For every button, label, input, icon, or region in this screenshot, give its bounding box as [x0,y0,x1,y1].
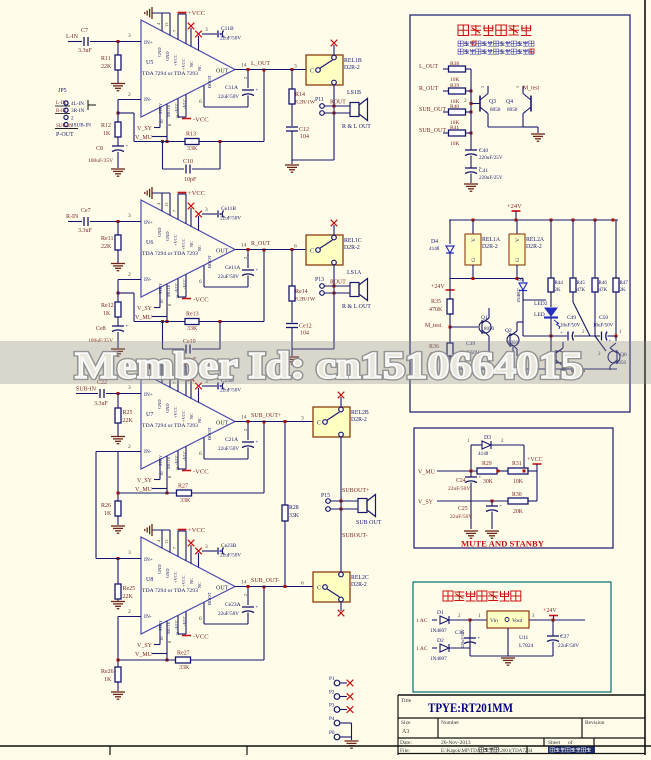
svg-text:LED2: LED2 [534,301,548,307]
svg-text:-VCC: -VCC [193,297,209,304]
svg-text:GND: GND [165,403,170,413]
svg-text:22uF/50V: 22uF/50V [220,216,241,222]
svg-text:IN-: IN- [144,449,152,455]
svg-text:14: 14 [241,580,247,586]
svg-text:MUTE AND STANBY: MUTE AND STANBY [461,539,544,549]
svg-text:1N4007: 1N4007 [430,628,447,634]
svg-text:20K: 20K [513,509,524,515]
svg-text:+VCC: +VCC [181,238,186,250]
svg-text:R28: R28 [289,505,299,511]
svg-text:1 AC: 1 AC [416,618,428,624]
svg-text:ROUT: ROUT [330,280,346,286]
svg-text:R-IN: R-IN [66,214,79,220]
svg-text:R30: R30 [512,492,522,498]
svg-text:+: + [256,441,259,446]
svg-text:10pF: 10pF [184,177,197,183]
svg-text:V: V [515,238,521,242]
svg-text:2: 2 [128,92,131,98]
svg-text:IN-: IN- [144,97,152,103]
svg-text:TDA 7294 or TDA 7293: TDA 7294 or TDA 7293 [142,423,198,429]
svg-text:of: of [568,739,573,746]
svg-text:R26: R26 [101,503,111,509]
svg-text:+VCC: +VCC [188,10,205,17]
svg-text:NC: NC [197,417,202,423]
svg-text:R45: R45 [577,281,586,286]
svg-text:2: 2 [243,594,248,596]
svg-text:ROUT: ROUT [330,100,346,106]
svg-text:220uF/25V: 220uF/25V [479,155,503,161]
svg-text:V_MU: V_MU [135,315,153,321]
svg-text:+: + [256,269,259,274]
svg-text:SUB_OUT: SUB_OUT [419,128,446,134]
svg-text:6: 6 [301,581,304,587]
svg-text:3.3uF: 3.3uF [94,401,109,407]
svg-text:13: 13 [164,22,169,27]
svg-text:LED: LED [534,312,545,318]
svg-text:L-IN: L-IN [56,101,66,106]
svg-text:R41: R41 [450,125,459,131]
svg-text:+: + [500,505,503,510]
svg-text:C7: C7 [81,28,88,34]
svg-text:10K: 10K [513,479,524,485]
svg-text:D3: D3 [484,435,491,441]
svg-text:TDA 7294 or TDA 7293: TDA 7294 or TDA 7293 [142,588,198,594]
svg-text:NC: NC [197,65,202,71]
svg-text:+: + [126,145,129,150]
svg-text:R46: R46 [599,281,608,286]
svg-text:33K: 33K [289,513,300,519]
svg-text:V_SY: V_SY [418,500,434,506]
svg-text:Vout: Vout [512,618,523,624]
svg-text:GND: GND [157,47,162,57]
svg-text:BOOT: BOOT [207,255,212,268]
svg-text:Member Id: cn1510664015: Member Id: cn1510664015 [75,345,583,387]
svg-text:R & L OUT: R & L OUT [342,124,371,130]
svg-text:1K: 1K [104,677,112,683]
svg-text:2K: 2K [620,288,627,293]
svg-text:C25: C25 [458,506,468,512]
svg-text:22uF/50V: 22uF/50V [220,36,241,42]
svg-text:R12: R12 [101,123,111,129]
svg-text:33K: 33K [179,665,190,671]
svg-text:6: 6 [294,244,297,250]
svg-text:IN+: IN+ [144,392,153,398]
svg-text:1K: 1K [103,311,111,317]
svg-text:33K: 33K [187,146,198,152]
svg-text:2: 2 [243,429,248,431]
svg-text:REL2A: REL2A [526,237,545,243]
svg-text:V_MU: V_MU [135,135,153,141]
svg-text:+: + [256,606,259,611]
svg-text:Ce23A: Ce23A [225,602,241,608]
svg-text:Q1: Q1 [481,315,488,321]
svg-text:D2R-2: D2R-2 [482,244,498,250]
svg-text:2: 2 [128,272,131,278]
svg-text:\2001(TDA7294: \2001(TDA7294 [499,749,533,754]
svg-text:13: 13 [164,539,169,544]
svg-text:2: 2 [128,444,131,450]
svg-text:+: + [479,476,482,481]
svg-text:U11: U11 [519,635,529,641]
svg-text:+VCC: +VCC [173,571,178,583]
svg-text:3: 3 [294,64,297,70]
svg-text:8050: 8050 [507,107,518,113]
svg-text:R35: R35 [431,299,441,305]
svg-text:D2R-2: D2R-2 [344,245,360,251]
svg-text:+24V: +24V [431,284,445,290]
svg-text:IN-: IN- [144,614,152,620]
svg-text:+VCC: +VCC [173,234,178,246]
svg-text:C37: C37 [560,634,569,640]
svg-text:C: C [310,69,314,75]
svg-text:V_MU: V_MU [135,487,153,493]
svg-text:+24V: +24V [543,608,557,614]
svg-text:P0: P0 [329,730,335,736]
svg-text:NC: NC [189,241,194,247]
svg-text:Ce12: Ce12 [299,324,312,330]
svg-text:22uF/50V: 22uF/50V [218,94,239,100]
svg-text:V_MU: V_MU [135,652,153,658]
svg-text:L-IN: L-IN [66,34,79,40]
svg-text:OUT: OUT [216,249,229,255]
svg-text:SUB_OUT-: SUB_OUT- [251,578,279,584]
svg-text:Re25: Re25 [123,586,136,592]
svg-text:SUB_OUT: SUB_OUT [419,107,446,113]
svg-text:U8: U8 [146,577,153,583]
svg-text:L7824: L7824 [519,643,534,649]
svg-text:P2: P2 [329,690,335,696]
svg-text:4148: 4148 [478,451,489,457]
svg-text:GND: GND [157,399,162,409]
svg-text:R39: R39 [450,83,459,89]
svg-text:U5: U5 [146,60,153,66]
svg-text:+: + [256,89,259,94]
svg-text:+VCC: +VCC [173,406,178,418]
svg-text:P4: P4 [329,716,335,722]
svg-text:D2R-2: D2R-2 [344,65,360,71]
svg-text:C40: C40 [479,148,488,154]
svg-text:BOOT: BOOT [207,427,212,440]
svg-text:8050: 8050 [490,107,501,113]
svg-text:REL2C: REL2C [351,575,369,581]
svg-text:REL1B: REL1B [344,58,362,64]
svg-text:P15: P15 [321,493,330,499]
svg-text:TPYE:RT201MM: TPYE:RT201MM [428,701,513,715]
svg-text:IN+: IN+ [144,557,153,563]
svg-text:22uF/50V: 22uF/50V [558,643,579,649]
svg-text:Q4: Q4 [506,99,513,105]
svg-text:100uF/35V: 100uF/35V [88,158,113,164]
svg-text:V: V [471,238,477,242]
svg-text:L_OUT: L_OUT [419,64,438,70]
svg-text:47K: 47K [599,288,608,293]
svg-text:470K: 470K [429,307,443,313]
svg-text:1N4007: 1N4007 [516,287,521,303]
svg-text:220uF/25V: 220uF/25V [479,175,503,181]
svg-text:C11A: C11A [225,85,238,91]
svg-text:M_test: M_test [425,323,441,329]
svg-text:Vin: Vin [490,618,498,624]
svg-text:33K: 33K [187,326,198,332]
svg-text:+VCC: +VCC [173,54,178,66]
svg-text:TDA 7294 or TDA 7293: TDA 7294 or TDA 7293 [142,251,198,257]
svg-text:Date:: Date: [400,740,412,746]
svg-text:22uF/50V: 22uF/50V [220,553,241,559]
svg-text:LS1A: LS1A [347,270,362,276]
svg-text:5: 5 [480,86,485,88]
svg-text:1 AC: 1 AC [416,646,428,652]
svg-text:+: + [560,331,563,336]
svg-text:P-OUT: P-OUT [56,132,74,138]
svg-text:E:\Kapok\MP\TDA: E:\Kapok\MP\TDA [441,749,481,754]
svg-text:C24: C24 [456,478,466,484]
svg-text:R44: R44 [555,281,564,286]
svg-text:2: 2 [243,257,248,259]
svg-text:33K: 33K [180,498,191,504]
svg-text:104: 104 [300,331,309,337]
svg-text:GND: GND [157,227,162,237]
svg-text:C12: C12 [299,127,309,133]
svg-text:3: 3 [301,416,304,422]
svg-text:GND: GND [165,51,170,61]
svg-text:8.2R/1W: 8.2R/1W [295,100,316,106]
svg-text:14: 14 [241,243,247,249]
svg-text:Ce23B: Ce23B [221,543,237,549]
svg-text:IN+: IN+ [144,220,153,226]
svg-text:BOOT: BOOT [207,592,212,605]
svg-text:8.2R/1W: 8.2R/1W [295,297,316,303]
svg-text:R25: R25 [123,410,133,416]
svg-text:C41: C41 [479,168,488,174]
svg-text:TDA 7294 or TDA 7293: TDA 7294 or TDA 7293 [142,71,198,77]
svg-text:LS1B: LS1B [347,90,361,96]
svg-text:+VCC: +VCC [188,527,205,534]
svg-text:1K: 1K [103,131,111,137]
svg-text:22K: 22K [123,594,134,600]
svg-text:OUT: OUT [216,421,229,427]
svg-text:20-Nov-2013: 20-Nov-2013 [441,740,471,746]
svg-text:3: 3 [128,550,131,556]
svg-text:+24V: +24V [507,203,522,210]
svg-text:P3: P3 [329,703,335,709]
svg-text:22uF/50V: 22uF/50V [220,388,241,394]
svg-text:R13: R13 [186,132,196,138]
svg-text:R_OUT: R_OUT [419,86,439,92]
svg-text:6: 6 [199,616,202,622]
svg-text:NC: NC [189,578,194,584]
svg-text:-VCC: -VCC [193,117,209,124]
svg-text:C10: C10 [183,159,193,165]
svg-text:R38: R38 [450,61,459,67]
svg-text:2: 2 [128,609,131,615]
svg-text:V_MU: V_MU [418,470,436,476]
svg-text:220uF/50V: 220uF/50V [460,629,465,648]
svg-text:5: 5 [515,86,520,88]
svg-text:Re26: Re26 [101,669,114,675]
svg-text:R14: R14 [295,92,305,98]
svg-text:3: 3 [205,27,208,33]
svg-text:NC: NC [197,245,202,251]
svg-text:4L-IN: 4L-IN [71,101,84,107]
svg-text:OUT: OUT [216,586,229,592]
svg-text:REL1C: REL1C [344,238,362,244]
svg-text:C21A: C21A [225,437,238,443]
svg-text:Ce11B: Ce11B [221,206,236,212]
svg-text:+VCC: +VCC [181,410,186,422]
svg-text:D2R-2: D2R-2 [351,417,367,423]
svg-text:3: 3 [205,207,208,213]
svg-text:22uF/50V: 22uF/50V [218,611,239,617]
svg-text:REL2B: REL2B [351,410,369,416]
svg-text:1K: 1K [104,511,112,517]
svg-text:L_OUT: L_OUT [251,61,270,67]
svg-text:22K: 22K [101,244,112,250]
svg-text:M_test: M_test [523,86,539,92]
svg-text:U6: U6 [146,240,153,246]
svg-text:REL1A: REL1A [482,237,501,243]
svg-text:3.3uF: 3.3uF [78,228,93,234]
svg-text:22uF/50V: 22uF/50V [448,486,470,492]
svg-text:P11: P11 [315,97,324,103]
svg-text:104: 104 [300,134,309,140]
svg-text:Re13: Re13 [186,312,199,318]
svg-text:P1: P1 [329,676,335,682]
svg-text:R47: R47 [620,281,629,286]
svg-text:R29: R29 [482,461,492,467]
svg-text:-VCC: -VCC [193,634,209,641]
svg-text:P13: P13 [315,277,324,283]
svg-text:2: 2 [71,115,74,121]
svg-text:6: 6 [199,99,202,105]
svg-text:V_SY: V_SY [137,306,153,312]
svg-text:2: 2 [464,98,467,104]
svg-text:Number: Number [441,720,459,726]
svg-text:22K: 22K [123,418,134,424]
svg-text:10uF/50V: 10uF/50V [560,324,581,329]
svg-text:+VCC: +VCC [527,457,543,463]
svg-text:6: 6 [199,451,202,457]
svg-text:C49: C49 [567,315,576,321]
svg-text:G: G [515,258,521,262]
svg-text:3: 3 [128,213,131,219]
svg-text:1SUB-IN: 1SUB-IN [71,123,91,129]
svg-text:File:: File: [400,748,411,754]
svg-text:3: 3 [205,544,208,550]
svg-text:Q3: Q3 [489,99,496,105]
svg-text:G: G [471,258,477,262]
svg-text:D2R-2: D2R-2 [526,244,542,250]
svg-text:+VCC: +VCC [188,190,205,197]
svg-text:13: 13 [164,202,169,207]
svg-text:30K: 30K [483,479,494,485]
svg-text:Size: Size [401,720,411,726]
svg-text:3: 3 [128,33,131,39]
svg-text:R_OUT: R_OUT [251,241,271,247]
svg-text:OUT: OUT [216,69,229,75]
svg-text:SUB_OUT+: SUB_OUT+ [251,413,282,419]
svg-text:Re14: Re14 [295,289,308,295]
svg-text:Title: Title [401,698,412,704]
svg-text:V_SY: V_SY [137,478,153,484]
svg-text:14: 14 [241,63,247,69]
svg-text:3.3uF: 3.3uF [78,48,93,54]
svg-text:C: C [317,586,321,592]
svg-text:A3: A3 [402,729,409,735]
svg-text:2K: 2K [555,288,562,293]
svg-text:10K: 10K [450,141,460,147]
svg-text:22K: 22K [101,64,112,70]
svg-text:Re12: Re12 [101,303,114,309]
svg-text:2: 2 [243,77,248,79]
svg-text:GND: GND [157,564,162,574]
svg-text:Revision: Revision [585,720,605,726]
svg-text:4148: 4148 [429,246,440,252]
svg-text:22uF/50V: 22uF/50V [450,514,472,520]
svg-text:Re11: Re11 [101,236,113,242]
svg-text:U7: U7 [146,412,153,418]
svg-text:D4: D4 [431,239,438,245]
svg-text:GND: GND [165,568,170,578]
svg-text:C8: C8 [96,146,103,152]
svg-text:C50: C50 [599,315,608,321]
svg-text:SUBOUT+: SUBOUT+ [342,488,370,494]
svg-text:D5: D5 [517,277,524,283]
svg-text:22uF/50V: 22uF/50V [218,446,239,452]
svg-text:D1: D1 [437,610,444,616]
svg-text:NC: NC [197,582,202,588]
svg-text:BOOT: BOOT [207,75,212,88]
svg-text:R11: R11 [101,56,111,62]
svg-text:V_SY: V_SY [137,643,153,649]
svg-text:GND: GND [165,231,170,241]
svg-text:-VCC: -VCC [193,469,209,476]
svg-text:22uF/50V: 22uF/50V [218,274,239,280]
svg-text:Ce8: Ce8 [96,326,106,332]
svg-text:V_SY: V_SY [137,126,153,132]
svg-text:3R-IN: 3R-IN [71,108,85,114]
svg-text:SUB-IN: SUB-IN [76,387,97,393]
svg-text:C: C [310,249,314,255]
svg-text:R27: R27 [178,484,188,490]
svg-text:C: C [317,421,321,427]
svg-text:R40: R40 [450,104,459,110]
svg-text:Ce7: Ce7 [81,208,91,214]
svg-text:+VCC: +VCC [181,575,186,587]
svg-text:R31: R31 [512,461,522,467]
svg-text:C11B: C11B [221,26,234,32]
svg-text:R & L OUT: R & L OUT [342,304,371,310]
svg-text:NC: NC [189,61,194,67]
svg-text:D2R-2: D2R-2 [351,582,367,588]
svg-text:NC: NC [189,413,194,419]
svg-text:JP5: JP5 [58,88,67,94]
svg-text:Q2: Q2 [505,328,512,334]
svg-text:SUB OUT: SUB OUT [356,520,382,526]
svg-text:IN+: IN+ [144,40,153,46]
svg-text:Sheet: Sheet [548,740,561,746]
svg-text:1N4007: 1N4007 [430,656,447,662]
svg-text:14: 14 [241,415,247,421]
svg-text:+VCC: +VCC [181,58,186,70]
svg-text:47K: 47K [577,288,586,293]
svg-text:IN-: IN- [144,277,152,283]
svg-text:Re27: Re27 [177,651,190,657]
svg-text:10uF/50V: 10uF/50V [593,324,614,329]
svg-text:8050: 8050 [484,327,495,332]
svg-text:+: + [126,325,129,330]
svg-text:D2: D2 [437,638,444,644]
svg-text:+: + [478,637,481,642]
